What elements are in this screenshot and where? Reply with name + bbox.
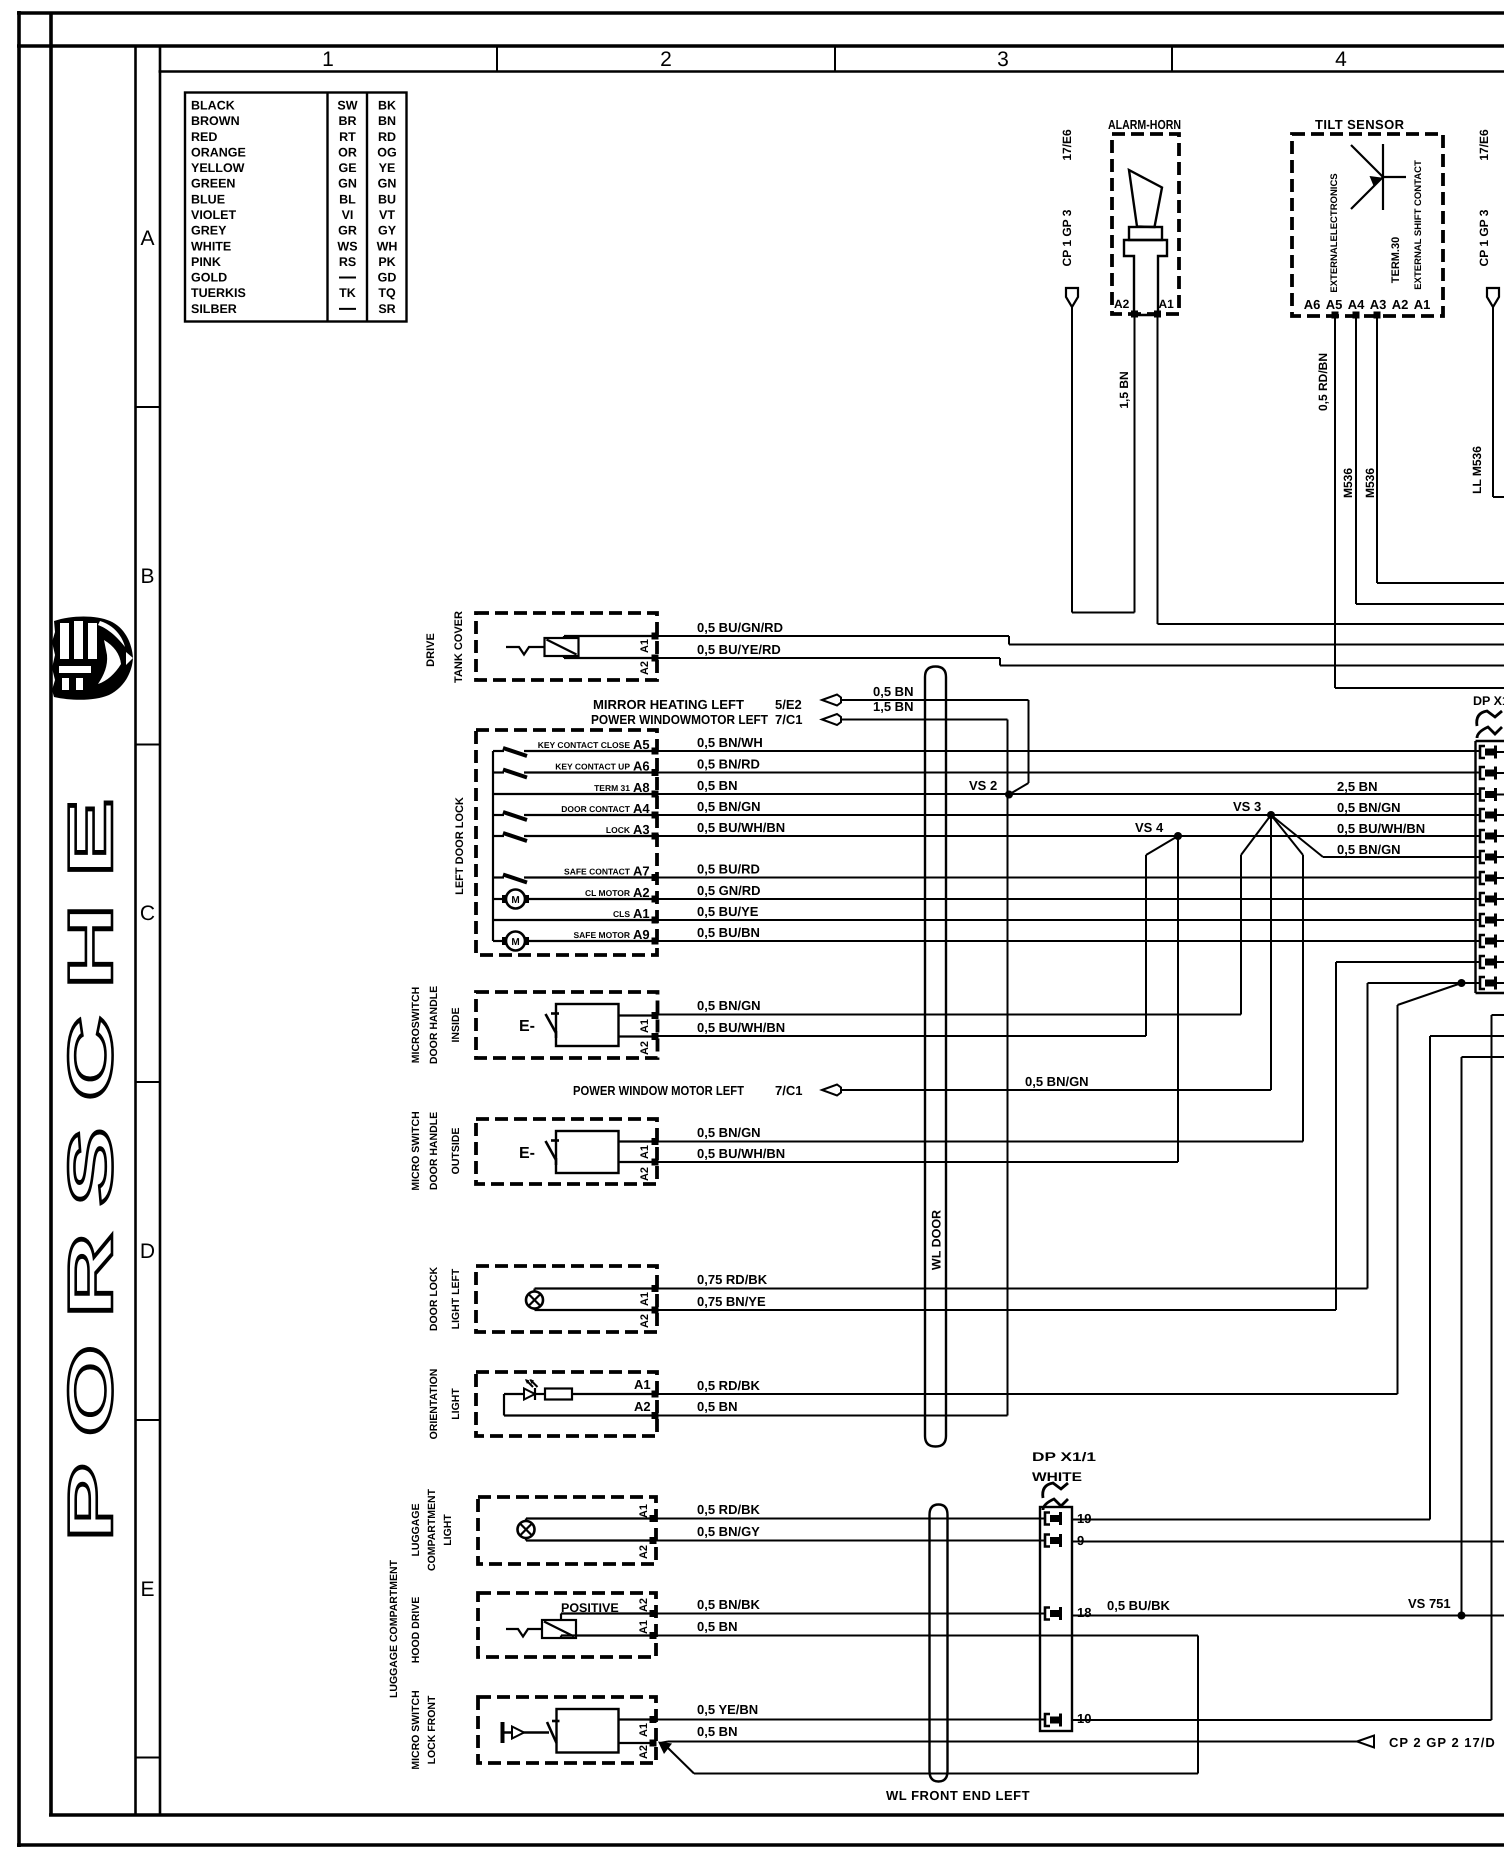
svg-text:TERM.30: TERM.30 — [1390, 237, 1402, 283]
component: drive tank cover (box) — [476, 613, 657, 680]
DP X pin at y=773 — [1480, 767, 1485, 779]
svg-text:A1: A1 — [1414, 297, 1431, 312]
svg-text:TANK COVER: TANK COVER — [453, 611, 465, 683]
svg-text:17/E6: 17/E6 — [1060, 129, 1074, 161]
door lock row A8 (TERM 31) — [493, 793, 657, 795]
svg-text:VS 751: VS 751 — [1408, 1596, 1451, 1611]
DP X1/1 pin 18 — [1045, 1608, 1050, 1620]
svg-text:CLS: CLS — [613, 909, 630, 919]
svg-text:POWER WINDOWMOTOR LEFT: POWER WINDOWMOTOR LEFT — [591, 712, 768, 727]
svg-text:A6: A6 — [1304, 297, 1321, 312]
svg-text:LEFT DOOR LOCK: LEFT DOOR LOCK — [454, 797, 466, 895]
svg-text:GE: GE — [338, 161, 356, 175]
lock front key symbol — [501, 1722, 505, 1743]
svg-text:TUERKIS: TUERKIS — [191, 286, 246, 300]
svg-text:BK: BK — [378, 99, 396, 113]
svg-text:A1: A1 — [1159, 297, 1175, 311]
lock front switch — [547, 1722, 557, 1743]
svg-text:YELLOW: YELLOW — [191, 161, 245, 175]
drive tank cover pins A1 A2 — [652, 633, 659, 640]
DP X pin at y=836 — [1480, 830, 1485, 842]
svg-text:DOOR LOCK: DOOR LOCK — [428, 1267, 440, 1332]
svg-text:0,5 BU/WH/BN: 0,5 BU/WH/BN — [1337, 821, 1425, 836]
door lock row A6 (KEY CONTACT UP) — [493, 771, 504, 773]
svg-text:0,5 BU/WH/BN: 0,5 BU/WH/BN — [697, 1020, 785, 1035]
svg-text:DOOR CONTACT: DOOR CONTACT — [561, 804, 631, 814]
svg-text:A1: A1 — [634, 1377, 651, 1392]
svg-text:5/E2: 5/E2 — [775, 697, 802, 712]
svg-text:OUTSIDE: OUTSIDE — [450, 1128, 462, 1175]
alarm horn symbol — [1129, 170, 1162, 227]
svg-text:BLUE: BLUE — [191, 192, 225, 206]
row-letter column — [134, 46, 137, 1815]
wire 0,5 BN/GN to VS 3 — [841, 1089, 1271, 1091]
wire colour legend table — [185, 93, 407, 322]
door lock light lamp — [526, 1292, 543, 1309]
VS 3 branch wires — [1241, 815, 1271, 855]
svg-text:GREY: GREY — [191, 224, 227, 238]
Porsche crest logo — [52, 617, 133, 700]
svg-text:0,5 BU/RD: 0,5 BU/RD — [697, 862, 760, 877]
DP X pin at y=815 — [1480, 809, 1485, 821]
DP X pin at y=878 — [1480, 872, 1485, 884]
wire door lock light A2 to DP X pin 11 — [1336, 961, 1481, 963]
off-page arrow CP 2 GP 2 17/D — [1357, 1736, 1374, 1748]
svg-text:A2: A2 — [1114, 297, 1130, 311]
svg-text:A2: A2 — [638, 1545, 650, 1559]
svg-text:CL MOTOR: CL MOTOR — [585, 888, 630, 898]
svg-text:0,5 BN: 0,5 BN — [697, 1619, 737, 1634]
svg-text:0,5 BU/BN: 0,5 BU/BN — [697, 925, 760, 940]
svg-text:0,5 BN/GN: 0,5 BN/GN — [697, 799, 761, 814]
svg-text:0,5 BN: 0,5 BN — [873, 684, 913, 699]
svg-text:YE: YE — [379, 161, 396, 175]
door lock light pins A1 A2 — [652, 1285, 659, 1292]
component: luggage compartment hood drive (box) — [478, 1593, 656, 1657]
svg-text:A1: A1 — [638, 1620, 650, 1634]
svg-text:M: M — [511, 937, 519, 948]
svg-text:2,5 BN: 2,5 BN — [1337, 779, 1377, 794]
svg-text:A2: A2 — [633, 885, 650, 900]
svg-text:BL: BL — [339, 192, 356, 206]
svg-text:A1: A1 — [639, 1145, 651, 1159]
door lock row A9 (SAFE MOTOR) — [493, 940, 505, 942]
svg-text:MIRROR HEATING LEFT: MIRROR HEATING LEFT — [593, 697, 744, 712]
svg-text:RT: RT — [339, 130, 356, 144]
cable bundle WL FRONT END LEFT — [928, 1515, 930, 1771]
svg-text:0,5 BN: 0,5 BN — [697, 1724, 737, 1739]
svg-text:RED: RED — [191, 130, 217, 144]
svg-text:B: B — [140, 565, 154, 588]
svg-text:GN: GN — [338, 177, 357, 191]
luggage light lamp — [518, 1521, 535, 1538]
svg-text:A8: A8 — [633, 780, 650, 795]
component: door lock light left (box) — [476, 1266, 657, 1332]
flag CP 1 GP 3 (right) — [1487, 288, 1499, 307]
svg-text:DP X1: DP X1 — [1473, 694, 1504, 708]
svg-text:M536: M536 — [1341, 468, 1355, 498]
DP X pin at y=752 — [1480, 746, 1485, 758]
svg-text:WL FRONT END LEFT: WL FRONT END LEFT — [886, 1788, 1030, 1803]
svg-text:PK: PK — [378, 255, 395, 269]
DP X1/1 pin 19 wire (right side) — [1072, 1519, 1430, 1521]
svg-text:A: A — [140, 227, 154, 250]
svg-text:7/C1: 7/C1 — [775, 712, 802, 727]
component: microswitch door handle inside (box) — [476, 992, 658, 1058]
svg-text:0,5 RD/BK: 0,5 RD/BK — [697, 1378, 760, 1393]
wire 0,5 BN to VS 2 — [841, 699, 1029, 701]
svg-text:GOLD: GOLD — [191, 271, 227, 285]
svg-text:A1: A1 — [638, 1723, 650, 1737]
component: left door lock (box) — [476, 730, 657, 955]
component: micro switch door handle outside (box) — [476, 1119, 657, 1184]
svg-text:0,5 BU/YE: 0,5 BU/YE — [697, 904, 759, 919]
svg-text:0,5 BN/WH: 0,5 BN/WH — [697, 735, 763, 750]
svg-text:DRIVE: DRIVE — [425, 633, 437, 667]
svg-text:GN: GN — [378, 177, 397, 191]
svg-text:LUGGAGE: LUGGAGE — [410, 1503, 422, 1556]
tilt sensor symbol — [1382, 144, 1384, 210]
svg-text:WH: WH — [377, 239, 398, 253]
svg-text:LOCK FRONT: LOCK FRONT — [426, 1695, 438, 1764]
svg-text:A3: A3 — [633, 822, 650, 837]
luggage light pins A1 A2 — [650, 1515, 657, 1522]
svg-text:0,75 RD/BK: 0,75 RD/BK — [697, 1272, 768, 1287]
svg-text:A3: A3 — [1370, 297, 1387, 312]
svg-text:GD: GD — [378, 271, 397, 285]
svg-text:0,5 RD/BN: 0,5 RD/BN — [1316, 353, 1330, 411]
wire from CP 1 GP 3 flag — [1071, 307, 1073, 613]
svg-text:TERM 31: TERM 31 — [594, 783, 630, 793]
svg-text:WS: WS — [337, 239, 357, 253]
svg-text:VIOLET: VIOLET — [191, 208, 237, 222]
DP X pin at y=962 — [1480, 956, 1485, 968]
svg-text:SILBER: SILBER — [191, 302, 237, 316]
svg-text:A2: A2 — [639, 1314, 651, 1328]
DP X1/1 pin 10 — [1045, 1714, 1050, 1726]
svg-text:BR: BR — [338, 114, 356, 128]
svg-text:RS: RS — [339, 255, 356, 269]
junction dot at DP X pin 12 — [1458, 979, 1466, 987]
svg-text:A2: A2 — [638, 1598, 650, 1612]
svg-text:BROWN: BROWN — [191, 114, 240, 128]
svg-text:VS 4: VS 4 — [1135, 820, 1164, 835]
svg-text:A1: A1 — [639, 1019, 651, 1033]
DP X pin at y=899 — [1480, 893, 1485, 905]
door lock row A4 (DOOR CONTACT) — [493, 814, 504, 816]
lock front pins A1 A2 — [650, 1716, 657, 1723]
svg-text:WHITE: WHITE — [191, 239, 231, 253]
svg-text:VS 2: VS 2 — [969, 778, 997, 793]
svg-text:KEY CONTACT CLOSE: KEY CONTACT CLOSE — [538, 740, 631, 750]
svg-text:0,5 BU/WH/BN: 0,5 BU/WH/BN — [697, 820, 785, 835]
svg-text:MICRO SWITCH: MICRO SWITCH — [410, 1690, 422, 1769]
svg-text:VI: VI — [342, 208, 354, 222]
VS 4 branch wires — [1146, 836, 1178, 855]
svg-text:BLACK: BLACK — [191, 99, 235, 113]
svg-text:BN: BN — [378, 114, 396, 128]
svg-text:0,75 BN/YE: 0,75 BN/YE — [697, 1294, 766, 1309]
svg-text:VT: VT — [379, 208, 395, 222]
svg-text:SAFE CONTACT: SAFE CONTACT — [564, 867, 631, 877]
svg-text:DOOR HANDLE: DOOR HANDLE — [428, 986, 440, 1064]
svg-text:A2: A2 — [639, 1167, 651, 1181]
orientation light LED + resistor — [503, 1394, 505, 1416]
svg-text:GREEN: GREEN — [191, 177, 235, 191]
svg-text:HOOD DRIVE: HOOD DRIVE — [410, 1597, 422, 1664]
svg-text:A5: A5 — [1326, 297, 1343, 312]
svg-text:0,5 BN/GN: 0,5 BN/GN — [697, 1125, 761, 1140]
svg-text:A6: A6 — [633, 759, 650, 774]
svg-text:A2: A2 — [639, 661, 651, 675]
svg-text:0,5 BN/RD: 0,5 BN/RD — [697, 757, 760, 772]
wire alarm horn A1 — [1157, 317, 1159, 624]
svg-text:LOCK: LOCK — [606, 825, 631, 835]
component: luggage compartment light (box) — [478, 1497, 656, 1564]
svg-text:EXTERNAL SHIFT CONTACT: EXTERNAL SHIFT CONTACT — [1413, 160, 1424, 290]
hood drive solenoid — [506, 1629, 542, 1637]
svg-text:LUGGAGE COMPARTMENT: LUGGAGE COMPARTMENT — [388, 1559, 400, 1698]
svg-text:2: 2 — [660, 48, 672, 71]
svg-text:A2: A2 — [639, 1041, 651, 1055]
door lock row A5 (KEY CONTACT CLOSE) — [493, 750, 504, 752]
svg-text:0,5 BN/BK: 0,5 BN/BK — [697, 1597, 760, 1612]
svg-text:7/C1: 7/C1 — [775, 1083, 802, 1098]
DP X pin at y=920 — [1480, 914, 1485, 926]
svg-text:0,5 GN/RD: 0,5 GN/RD — [697, 883, 761, 898]
svg-text:PORSCHE: PORSCHE — [56, 772, 126, 1542]
svg-text:WL DOOR: WL DOOR — [930, 1210, 944, 1270]
svg-text:10: 10 — [1077, 1711, 1091, 1726]
svg-text:MICROSWITCH: MICROSWITCH — [410, 987, 422, 1063]
DP X pin at y=794.5 — [1480, 789, 1485, 801]
svg-text:M536: M536 — [1363, 468, 1377, 498]
svg-text:18: 18 — [1077, 1605, 1091, 1620]
flag CP 1 GP 3 — [1066, 288, 1078, 307]
svg-text:CP 1 GP 3: CP 1 GP 3 — [1477, 209, 1491, 266]
svg-text:OR: OR — [338, 145, 357, 159]
svg-text:E-: E- — [519, 1018, 535, 1035]
svg-text:TQ: TQ — [378, 286, 396, 300]
svg-text:A1: A1 — [633, 906, 650, 921]
svg-text:COMPARTMENT: COMPARTMENT — [426, 1488, 438, 1571]
drive tank cover solenoid — [506, 647, 544, 655]
svg-text:A5: A5 — [633, 737, 650, 752]
wire door lock light A1 to DP X pin 12 — [1368, 982, 1482, 984]
DP X1/1 pin 10 wire (right side) — [1072, 1719, 1492, 1721]
svg-text:C: C — [140, 902, 155, 925]
door lock row A7 (SAFE CONTACT) — [493, 876, 504, 878]
door lock row A1 (CLS) — [493, 919, 657, 921]
svg-text:BU: BU — [378, 192, 396, 206]
svg-text:4: 4 — [1335, 48, 1347, 71]
svg-text:SAFE MOTOR: SAFE MOTOR — [573, 930, 630, 940]
svg-text:WHITE: WHITE — [1032, 1470, 1082, 1484]
door lock row A2 (CL MOTOR) — [493, 898, 505, 900]
door lock row A3 (LOCK) — [493, 835, 504, 837]
hood drive pins A2 A1 — [650, 1610, 657, 1617]
svg-text:GY: GY — [378, 224, 397, 238]
svg-text:SW: SW — [337, 99, 357, 113]
svg-text:ORANGE: ORANGE — [191, 145, 246, 159]
DP X pin at y=857 — [1480, 851, 1485, 863]
svg-text:1,5 BN: 1,5 BN — [1117, 371, 1131, 408]
svg-text:0,5 BN: 0,5 BN — [697, 778, 737, 793]
svg-text:0,5 BN/GN: 0,5 BN/GN — [697, 998, 761, 1013]
drawing frame top — [159, 70, 1504, 73]
wire 1,5 BN (vertical to orientation light) — [841, 719, 1008, 721]
svg-text:ALARM-HORN: ALARM-HORN — [1108, 117, 1181, 132]
svg-text:A9: A9 — [633, 927, 650, 942]
svg-text:EXTERNALELECTRONICS: EXTERNALELECTRONICS — [1329, 173, 1340, 292]
svg-text:17/E6: 17/E6 — [1477, 129, 1491, 161]
svg-text:0,5 BN: 0,5 BN — [697, 1399, 737, 1414]
DP X1/1 pin 9 wire (right side) — [1072, 1541, 1504, 1543]
svg-text:A2: A2 — [638, 1745, 650, 1759]
left door lock internal bus — [492, 751, 494, 941]
svg-text:0,5 BU/WH/BN: 0,5 BU/WH/BN — [697, 1146, 785, 1161]
svg-text:A7: A7 — [633, 864, 650, 879]
DP X1/1 pin 9 — [1045, 1535, 1050, 1547]
svg-text:SR: SR — [378, 302, 395, 316]
svg-text:CP 2 GP 2 17/D: CP 2 GP 2 17/D — [1389, 1735, 1496, 1750]
svg-text:E-: E- — [519, 1145, 535, 1162]
svg-text:0,5 YE/BN: 0,5 YE/BN — [697, 1702, 758, 1717]
svg-text:CP 1 GP 3: CP 1 GP 3 — [1060, 209, 1074, 266]
svg-text:INSIDE: INSIDE — [450, 1007, 462, 1042]
svg-text:0,5 BN/GN: 0,5 BN/GN — [1025, 1074, 1089, 1089]
column number band — [496, 46, 498, 72]
svg-text:A4: A4 — [1348, 297, 1365, 312]
svg-text:0,5 BN/GY: 0,5 BN/GY — [697, 1524, 760, 1539]
DP X1/1 pin 19 — [1045, 1513, 1050, 1525]
svg-text:MICRO SWITCH: MICRO SWITCH — [410, 1111, 422, 1190]
DP X pin at y=983 — [1480, 977, 1485, 989]
svg-text:A1: A1 — [638, 1504, 650, 1518]
svg-text:0,5 BN/GN: 0,5 BN/GN — [1337, 842, 1401, 857]
svg-text:POWER WINDOW MOTOR LEFT: POWER WINDOW MOTOR LEFT — [573, 1083, 744, 1098]
svg-text:E: E — [140, 1578, 154, 1601]
DP X pin at y=941 — [1480, 935, 1485, 947]
page border outer — [17, 11, 1504, 15]
component: micro switch lock front (box) — [478, 1697, 656, 1763]
svg-text:RD: RD — [378, 130, 396, 144]
svg-text:A4: A4 — [633, 801, 650, 816]
svg-text:ORIENTATION: ORIENTATION — [428, 1369, 440, 1440]
component: orientation light (box) — [476, 1372, 657, 1436]
svg-text:A1: A1 — [639, 1292, 651, 1306]
svg-text:A2: A2 — [634, 1399, 651, 1414]
svg-text:D: D — [140, 1240, 155, 1263]
svg-text:LIGHT: LIGHT — [442, 1514, 454, 1546]
svg-text:TILT SENSOR: TILT SENSOR — [1315, 117, 1405, 132]
svg-text:0,5 BN/GN: 0,5 BN/GN — [1337, 800, 1401, 815]
svg-text:0,5 BU/BK: 0,5 BU/BK — [1107, 1598, 1170, 1613]
svg-text:0,5 RD/BK: 0,5 RD/BK — [697, 1502, 760, 1517]
svg-text:GR: GR — [338, 224, 357, 238]
cable bundle WL DOOR — [924, 677, 926, 1436]
svg-text:DOOR HANDLE: DOOR HANDLE — [428, 1112, 440, 1190]
svg-text:1: 1 — [322, 48, 334, 71]
microswitch outside pins A1 A2 — [652, 1138, 659, 1145]
svg-text:A2: A2 — [1392, 297, 1409, 312]
svg-text:TK: TK — [339, 286, 356, 300]
wire 0,5 BN/GN (VS3 to DP X) — [1323, 856, 1481, 858]
svg-text:M: M — [511, 895, 519, 906]
svg-text:1,5 BN: 1,5 BN — [873, 699, 913, 714]
svg-text:PINK: PINK — [191, 255, 221, 269]
svg-text:LL M536: LL M536 — [1470, 446, 1484, 494]
page border inner — [17, 44, 1504, 48]
microswitch inside pins A1 A2 — [652, 1012, 659, 1019]
svg-text:LIGHT LEFT: LIGHT LEFT — [450, 1268, 462, 1329]
svg-text:3: 3 — [997, 48, 1009, 71]
svg-text:0,5 BU/GN/RD: 0,5 BU/GN/RD — [697, 620, 783, 635]
tilt sensor pins — [1332, 312, 1339, 319]
svg-text:DP X1/1: DP X1/1 — [1032, 1450, 1096, 1464]
svg-text:0,5 BU/YE/RD: 0,5 BU/YE/RD — [697, 642, 781, 657]
svg-text:VS 3: VS 3 — [1233, 799, 1261, 814]
svg-text:A1: A1 — [639, 639, 651, 653]
svg-text:LIGHT: LIGHT — [450, 1388, 462, 1420]
svg-text:KEY CONTACT UP: KEY CONTACT UP — [555, 762, 630, 772]
svg-text:OG: OG — [377, 145, 396, 159]
